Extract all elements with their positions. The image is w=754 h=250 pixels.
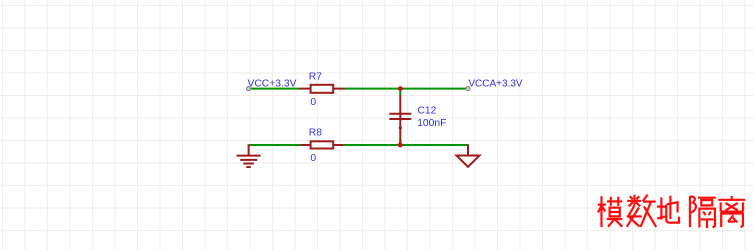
svg-text:R7: R7 — [309, 72, 322, 83]
char 地 — [657, 196, 679, 223]
power port VCC+3.3V pin dot — [247, 87, 251, 91]
svg-text:100nF: 100nF — [417, 118, 446, 129]
svg-text:R8: R8 — [309, 128, 322, 139]
svg-text:0: 0 — [310, 97, 316, 108]
junction bottom node — [398, 143, 403, 148]
wire stub below capacitor — [399, 139, 401, 145]
ground earth symbol left — [237, 144, 261, 167]
resistor R8 — [300, 141, 343, 148]
resistor R7 — [299, 85, 345, 93]
wire bottom rail left segment — [250, 144, 301, 146]
junction top node — [398, 86, 403, 91]
ground analog triangle symbol right — [457, 144, 480, 167]
char 模 — [598, 196, 623, 227]
char 离 — [718, 196, 745, 227]
svg-text:VCC+3.3V: VCC+3.3V — [248, 79, 297, 90]
wire bottom rail right segment — [344, 144, 467, 146]
power port VCCA+3.3V pin dot — [466, 87, 470, 91]
char 隔 — [690, 196, 716, 228]
wire top rail right segment — [345, 88, 467, 90]
svg-text:0: 0 — [310, 153, 316, 164]
wire top rail left segment — [250, 88, 300, 90]
svg-text:C12: C12 — [418, 106, 437, 117]
svg-text:VCCA+3.3V: VCCA+3.3V — [468, 79, 523, 90]
char 数 — [627, 195, 656, 227]
wire stub above capacitor — [399, 89, 401, 95]
capacitor C12 — [389, 95, 411, 144]
annotation text 模数地隔离 (red) — [598, 195, 746, 228]
